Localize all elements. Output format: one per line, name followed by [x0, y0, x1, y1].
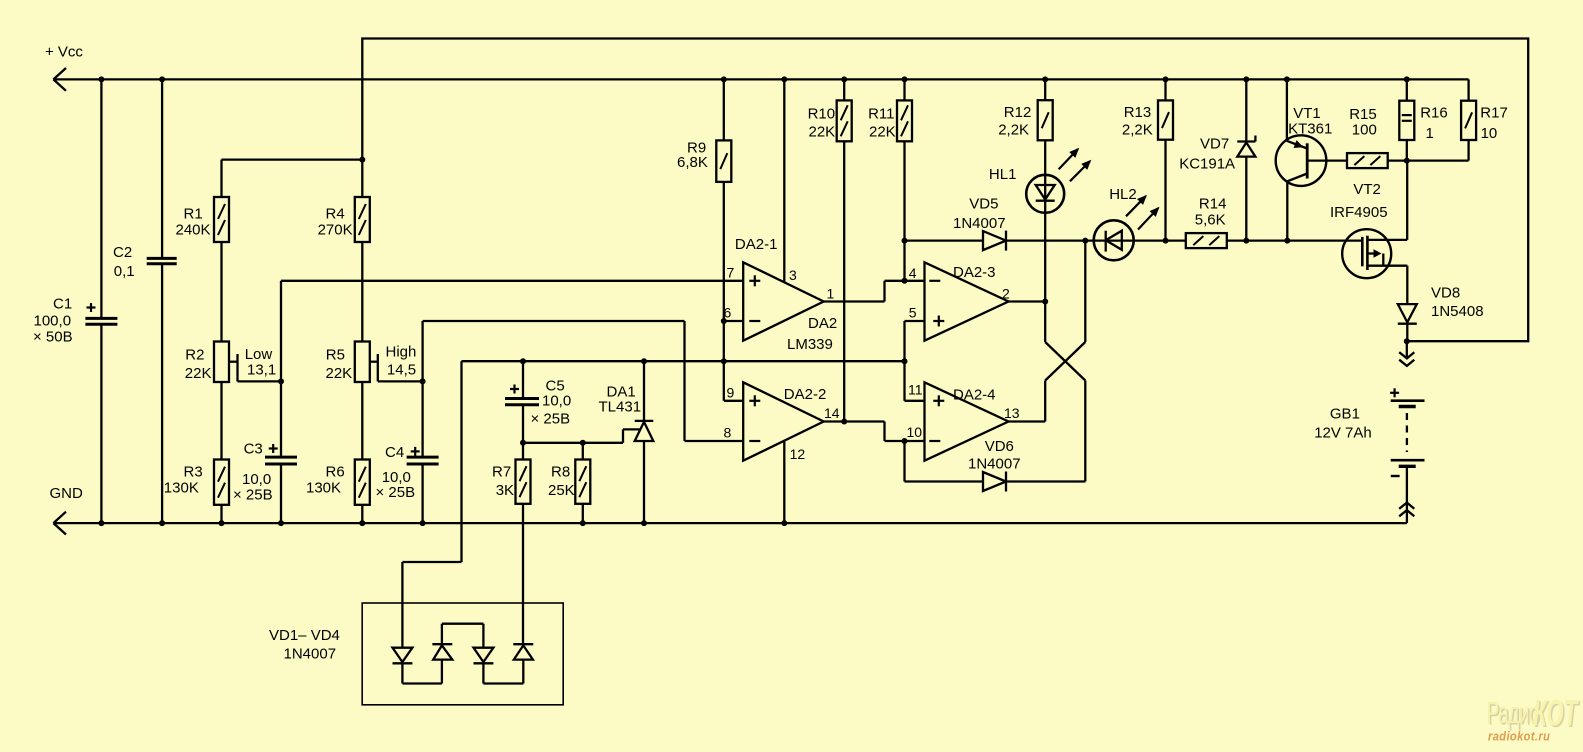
- resistor R1: [214, 197, 229, 242]
- svg-text:6: 6: [724, 305, 732, 321]
- junction R1-R4 top node: [359, 157, 365, 163]
- svg-text:0,1: 0,1: [114, 263, 135, 280]
- wire R14 to VT2 gate: [1227, 239, 1363, 241]
- wire R2 wiper Low: [229, 361, 238, 363]
- wire R4 top: [361, 160, 363, 197]
- wire reference net down to bridge: [460, 361, 462, 562]
- resistor R17: [1467, 79, 1469, 100]
- wire pin2 output: [1009, 300, 1046, 302]
- wire R9 to pin9: [723, 321, 725, 401]
- diode VD2: [402, 682, 442, 684]
- diode VD6: [983, 472, 1006, 491]
- svg-text:DA2-4: DA2-4: [953, 387, 996, 404]
- junction R10-Vcc: [841, 76, 847, 82]
- svg-text:radiokot.ru: radiokot.ru: [1488, 729, 1550, 744]
- svg-text:R12: R12: [1004, 104, 1032, 121]
- wire pin13 output: [1009, 420, 1046, 422]
- wire cross-couple pin2 to VD6 side: [1044, 302, 1046, 343]
- wire VD5 to HL2: [1006, 239, 1186, 241]
- node +Vcc rail with arrow: [53, 78, 1468, 80]
- svg-text:R1: R1: [184, 206, 203, 223]
- junction R3-GND: [219, 520, 225, 526]
- resistor R4: [355, 197, 370, 242]
- svg-text:GB1: GB1: [1330, 406, 1360, 423]
- junction VD7-gate line: [1243, 238, 1249, 244]
- node GND rail with arrow: [53, 522, 1406, 524]
- diode VD3: [442, 623, 484, 625]
- junction R15-R16: [1404, 158, 1410, 164]
- svg-text:130K: 130K: [164, 480, 199, 497]
- transistor VT1 KT361: [1276, 135, 1327, 186]
- wire R4-R5: [361, 242, 363, 342]
- svg-text:R4: R4: [326, 206, 345, 223]
- svg-text:13: 13: [1004, 405, 1020, 421]
- svg-text:1: 1: [1426, 125, 1434, 142]
- svg-text:TL431: TL431: [599, 399, 642, 416]
- svg-text:VT2: VT2: [1353, 181, 1381, 198]
- wire pin6 line down to pin8: [683, 321, 685, 441]
- resistor R13: [1164, 79, 1166, 100]
- capacitor C1: [100, 79, 102, 317]
- junction C1-GND: [98, 520, 104, 526]
- svg-text:2,2K: 2,2K: [1122, 122, 1153, 139]
- svg-text:HL1: HL1: [989, 166, 1017, 183]
- wire R5-R6: [361, 382, 363, 460]
- svg-text:10,0: 10,0: [542, 393, 571, 410]
- wire VD5 line: [905, 239, 984, 241]
- wire cross-couple pin13 to HL2 side: [1044, 381, 1046, 422]
- diode VD4: [483, 682, 523, 684]
- op-amp DA2-1: [743, 262, 824, 340]
- svg-text:R2: R2: [185, 347, 204, 364]
- junction R6-GND: [359, 520, 365, 526]
- svg-text:100,0: 100,0: [34, 313, 72, 330]
- resistor R7: [522, 443, 524, 460]
- capacitor C2: [161, 79, 163, 257]
- junction refnet-pin5: [902, 358, 908, 364]
- svg-text:1N5408: 1N5408: [1431, 303, 1484, 320]
- wire pin10 down to VD6: [903, 441, 905, 482]
- junction R12-Vcc: [1042, 76, 1048, 82]
- svg-text:14,5: 14,5: [387, 362, 416, 379]
- svg-text:22K: 22K: [809, 124, 836, 141]
- wire R1 top: [222, 158, 363, 160]
- junction C5 top: [520, 358, 526, 364]
- svg-text:7: 7: [727, 265, 735, 281]
- wire pin3 to Vcc: [783, 79, 785, 282]
- svg-text:× 25В: × 25В: [233, 487, 273, 504]
- junction DA1 top: [641, 358, 647, 364]
- wire VD6 to cross: [1006, 480, 1085, 482]
- svg-text:100: 100: [1352, 122, 1377, 139]
- svg-text:22K: 22K: [185, 365, 212, 382]
- svg-text:R6: R6: [326, 464, 345, 481]
- svg-text:C4: C4: [385, 444, 404, 461]
- junction C1-Vcc: [98, 76, 104, 82]
- trimmer R5: [355, 342, 370, 383]
- diode VD8: [1398, 304, 1417, 322]
- junction pin2-HL1: [1042, 299, 1048, 305]
- junction VD8-loop: [1404, 338, 1410, 344]
- svg-text:12V 7Ah: 12V 7Ah: [1314, 425, 1372, 442]
- svg-text:10,0: 10,0: [242, 471, 271, 488]
- svg-text:5: 5: [909, 305, 917, 321]
- svg-text:3K: 3K: [496, 482, 514, 499]
- svg-text:1: 1: [827, 286, 835, 302]
- capacitor C4: [421, 381, 423, 456]
- svg-text:VT1: VT1: [1293, 105, 1321, 122]
- junction R16-Vcc: [1404, 76, 1410, 82]
- resistor R6: [355, 460, 370, 505]
- svg-text:DA2-1: DA2-1: [735, 236, 778, 253]
- wire pin14 output: [824, 420, 885, 422]
- svg-text:1N4007: 1N4007: [968, 456, 1021, 473]
- junction X-HL2 line: [1082, 238, 1088, 244]
- svg-text:2: 2: [1002, 286, 1010, 302]
- svg-text:10: 10: [907, 424, 923, 440]
- svg-text:+ Vcc: + Vcc: [45, 44, 83, 61]
- op-amp DA2-3: [925, 262, 1009, 340]
- junction R8 top: [580, 440, 586, 446]
- svg-text:DA2: DA2: [808, 315, 837, 332]
- bridge box VD1-VD4: [362, 603, 563, 705]
- junction pin14-R10: [841, 419, 847, 425]
- svg-text:DA2-3: DA2-3: [953, 264, 996, 281]
- junction Low node: [278, 378, 284, 384]
- diode VD5: [983, 231, 1006, 250]
- svg-text:Low: Low: [245, 346, 273, 363]
- svg-text:R3: R3: [184, 464, 203, 481]
- junction pin12-GND: [781, 520, 787, 526]
- connector chevrons top: [1399, 352, 1414, 358]
- junction VD7-Vcc: [1243, 76, 1249, 82]
- junction pin10 node: [902, 438, 908, 444]
- svg-text:4: 4: [909, 265, 917, 281]
- wire R1-R2: [220, 242, 222, 342]
- svg-text:VD5: VD5: [969, 196, 998, 213]
- svg-text:12: 12: [790, 446, 806, 462]
- resistor R11: [903, 79, 905, 100]
- LED HL2: [1094, 220, 1134, 260]
- junction R8-GND: [580, 520, 586, 526]
- shunt regulator DA1 TL431: [643, 361, 645, 421]
- junction C5-R7: [520, 440, 526, 446]
- svg-text:HL2: HL2: [1109, 186, 1137, 203]
- resistor R15: [1347, 153, 1388, 168]
- zener VD7: [1245, 79, 1247, 141]
- LED HL1: [1026, 175, 1064, 213]
- svg-text:10: 10: [1481, 125, 1498, 142]
- diode VD1: [393, 648, 413, 662]
- resistor R9: [723, 79, 725, 140]
- wire pin4 up: [903, 241, 905, 281]
- svg-text:Радио: Радио: [1487, 697, 1540, 731]
- junction C3-GND: [278, 520, 284, 526]
- svg-text:25K: 25K: [548, 482, 575, 499]
- wire pin6 stub: [724, 320, 743, 322]
- junction C4-GND: [420, 520, 426, 526]
- junction DA1-GND: [641, 520, 647, 526]
- svg-text:R8: R8: [551, 464, 570, 481]
- svg-text:9: 9: [727, 385, 735, 401]
- svg-text:R7: R7: [492, 464, 511, 481]
- capacitor C5: [522, 361, 524, 397]
- svg-text:GND: GND: [50, 485, 84, 502]
- svg-text:270K: 270K: [318, 222, 353, 239]
- svg-text:DA2-2: DA2-2: [784, 386, 827, 403]
- op-amp DA2-2: [743, 382, 824, 460]
- junction R9-refnet: [721, 358, 727, 364]
- svg-text:22K: 22K: [326, 365, 353, 382]
- svg-text:R14: R14: [1199, 196, 1227, 213]
- svg-text:1N4007: 1N4007: [284, 646, 337, 663]
- svg-text:C1: C1: [53, 296, 72, 313]
- junction R11-VD5 line: [902, 238, 908, 244]
- svg-text:KT361: KT361: [1288, 121, 1332, 138]
- junction VT1 collector-gate line: [1284, 238, 1290, 244]
- svg-text:KC191A: KC191A: [1179, 156, 1235, 173]
- svg-text:VD6: VD6: [985, 438, 1014, 455]
- resistor R10: [843, 79, 845, 100]
- trimmer R2: [214, 342, 229, 383]
- junction C2-Vcc: [159, 76, 165, 82]
- junction R13-HL2 line: [1163, 238, 1169, 244]
- svg-text:R10: R10: [808, 105, 836, 122]
- junction C2-GND: [159, 520, 165, 526]
- resistor R3: [214, 460, 229, 505]
- wire R5 wiper High: [370, 361, 378, 363]
- svg-text:240K: 240K: [176, 222, 211, 239]
- svg-text:14: 14: [824, 405, 840, 421]
- wire plug to battery plus: [1406, 341, 1408, 357]
- svg-text:× 50В: × 50В: [33, 329, 73, 346]
- svg-text:11: 11: [908, 382, 923, 398]
- junction R13-Vcc: [1163, 76, 1169, 82]
- resistor R8: [582, 443, 584, 460]
- junction pin1-pin4 node: [902, 278, 908, 284]
- svg-text:× 25В: × 25В: [531, 411, 571, 428]
- junction VT1 emitter-Vcc: [1284, 76, 1290, 82]
- svg-text:R15: R15: [1349, 106, 1377, 123]
- svg-text:VD8: VD8: [1431, 285, 1460, 302]
- svg-text:R13: R13: [1124, 104, 1152, 121]
- junction pin3-Vcc: [781, 76, 787, 82]
- logo RadioKOT: [1487, 693, 1581, 744]
- wire R7 R8 DA1 net: [523, 442, 623, 444]
- svg-text:13,1: 13,1: [247, 362, 276, 379]
- svg-text:1N4007: 1N4007: [953, 215, 1006, 232]
- op-amp DA2-4: [925, 382, 1009, 460]
- resistor R12: [1044, 79, 1046, 100]
- junction High node: [420, 378, 426, 384]
- svg-text:R17: R17: [1480, 105, 1508, 122]
- capacitor C3: [280, 381, 282, 456]
- svg-text:8: 8: [724, 425, 732, 441]
- resistor R16: [1406, 79, 1408, 100]
- svg-text:× 25В: × 25В: [376, 484, 416, 501]
- resistor R14: [1186, 233, 1227, 248]
- wire R6-GND: [361, 505, 363, 523]
- svg-text:R16: R16: [1420, 105, 1448, 122]
- transistor VT2 IRF4905: [1342, 229, 1391, 278]
- wire R3-GND: [220, 505, 222, 523]
- wire Low node to pin7 line: [280, 281, 282, 382]
- wire reference net: [462, 360, 905, 362]
- svg-text:130K: 130K: [306, 480, 341, 497]
- svg-text:R11: R11: [868, 105, 894, 122]
- wire R2-R3: [220, 382, 222, 460]
- wire High node to pin6 line: [421, 321, 423, 381]
- junction R9-pin6: [721, 318, 727, 324]
- svg-text:R5: R5: [326, 347, 345, 364]
- wire pin5 to refnet: [905, 320, 925, 322]
- wire top feedback loop: [362, 39, 1528, 342]
- svg-text:22K: 22K: [869, 124, 896, 141]
- wire pin11 from refnet: [903, 361, 905, 401]
- svg-text:High: High: [386, 344, 417, 361]
- wire pin1 output: [824, 300, 885, 302]
- svg-text:IRF4905: IRF4905: [1330, 204, 1388, 221]
- svg-text:6,8K: 6,8K: [677, 154, 708, 171]
- svg-text:VD7: VD7: [1200, 136, 1229, 153]
- svg-text:LM339: LM339: [787, 336, 833, 353]
- wire pin12 to GND: [783, 441, 785, 523]
- svg-text:3: 3: [789, 267, 797, 283]
- svg-text:5,6K: 5,6K: [1195, 212, 1226, 229]
- connector chevrons bottom: [1399, 503, 1414, 509]
- svg-text:C3: C3: [244, 441, 263, 458]
- svg-text:C2: C2: [113, 244, 132, 261]
- svg-text:VD1– VD4: VD1– VD4: [269, 627, 340, 644]
- svg-text:2,2K: 2,2K: [998, 122, 1029, 139]
- junction R11-Vcc: [902, 76, 908, 82]
- junction R9-Vcc: [721, 76, 727, 82]
- battery GB1: [1390, 392, 1399, 394]
